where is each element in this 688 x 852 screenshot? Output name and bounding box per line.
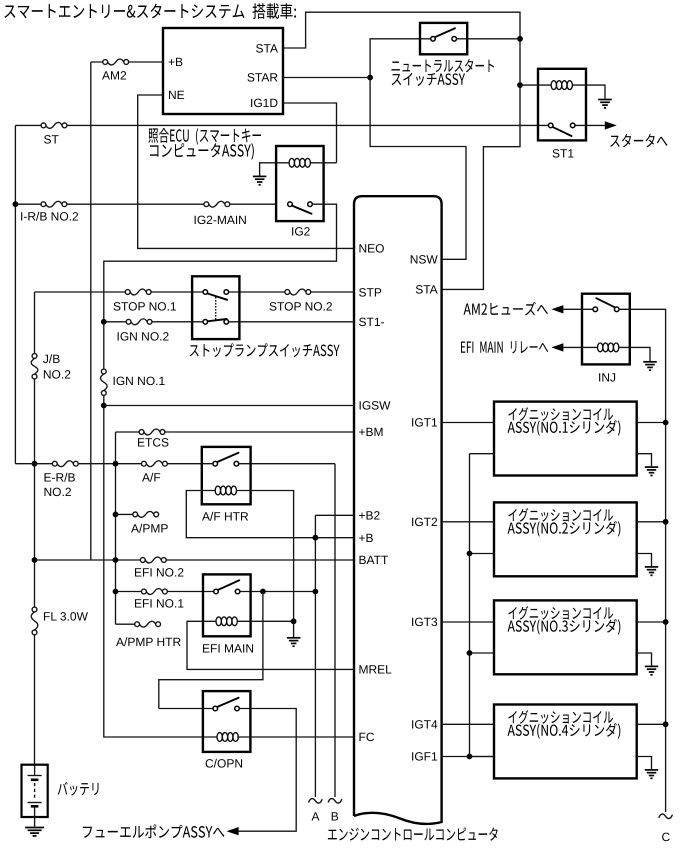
wire STOP NO.1 row <box>35 291 355 293</box>
wire ST1 coil left <box>520 84 551 86</box>
battery plate short bottom <box>31 805 39 808</box>
battery dashed middle <box>34 783 36 800</box>
fuse AM2 <box>103 60 108 65</box>
switch contacts neutral start switch <box>431 37 436 42</box>
node junction rail IGT3 <box>663 619 669 625</box>
relay A/F HTR box <box>202 447 251 504</box>
svg-text:IG2: IG2 <box>291 225 311 239</box>
wire A/F HTR coil right down <box>237 491 294 622</box>
wire coil NO.1 ground stem <box>637 454 652 467</box>
svg-text:A/F HTR: A/F HTR <box>202 510 249 524</box>
svg-text:EFI MAIN: EFI MAIN <box>202 642 254 656</box>
wire to AM2 fuse arrow <box>563 308 593 310</box>
svg-text:FL 3.0W: FL 3.0W <box>43 610 89 624</box>
wire EFI NO.2 BATT row <box>35 559 355 561</box>
node junction IGF coil2 <box>467 551 473 557</box>
breaker IGN NO.1 <box>101 369 106 374</box>
svg-text:ST: ST <box>44 133 60 147</box>
svg-text:EFI NO.1: EFI NO.1 <box>134 597 184 611</box>
node junction IGN NO.2 column <box>101 319 107 325</box>
relay ST1 box <box>538 69 586 141</box>
wire EFI MAIN coil right <box>237 620 293 622</box>
svg-text:NO.2: NO.2 <box>44 485 72 499</box>
switch contacts of relay A/F HTR <box>213 461 218 466</box>
svg-text:C: C <box>662 830 671 844</box>
label engine control computer <box>328 827 498 840</box>
svg-text:NO.2: NO.2 <box>43 368 71 382</box>
wire to EFI MAIN relay arrow <box>563 346 597 348</box>
wire C/OPN switch out to fuel pump <box>239 709 297 832</box>
wire EFI MAIN coil left to MREL <box>187 621 354 669</box>
wire INJ coil right to ground <box>619 347 650 361</box>
ignition coil ASSY NO.1 box <box>494 402 637 476</box>
svg-text:B: B <box>331 810 339 824</box>
wire coil NO.2 ground stem <box>637 554 652 567</box>
wire left rail vertical <box>14 125 16 463</box>
svg-text:IGF1: IGF1 <box>411 750 438 764</box>
ground at battery <box>25 827 44 829</box>
wire C/OPN coil right to FC <box>237 736 354 738</box>
arrow to fuel pump <box>227 827 239 835</box>
smart-key ECU label line2 <box>150 143 254 160</box>
node junction E-R/B <box>32 461 38 467</box>
ignition coil ASSY NO.4 box <box>494 705 637 779</box>
label to AM2 fuse <box>464 302 548 316</box>
wire coil NO.4 ground stem <box>637 757 652 770</box>
wire fuse feed column <box>115 432 117 624</box>
svg-text:ETCS: ETCS <box>137 436 169 450</box>
mechanical link dashed <box>215 297 217 320</box>
node junction EFI NO.2 rail <box>32 557 38 563</box>
svg-text:INJ: INJ <box>598 371 616 385</box>
wire coil NO.1 to C rail <box>637 422 666 424</box>
wire IG2 switch out <box>104 204 337 322</box>
relay INJ box <box>582 294 630 365</box>
svg-text:MREL: MREL <box>359 663 393 677</box>
svg-text:STP: STP <box>359 285 382 299</box>
ignition coil ASSY NO.3 box <box>494 600 637 674</box>
label ignition coil NO.2 line1 <box>508 508 613 522</box>
switch contacts of relay C/OPN <box>213 706 218 711</box>
node junction IGSW <box>101 403 107 409</box>
svg-text:IG2-MAIN: IG2-MAIN <box>194 213 247 227</box>
wire coil NO.3 to C rail <box>637 621 666 623</box>
ground at coil NO.3 <box>645 665 658 667</box>
relay EFI MAIN box <box>203 574 251 636</box>
svg-text:IGT2: IGT2 <box>411 515 438 529</box>
node junction relay grounds <box>291 618 297 624</box>
fuse ETCS <box>139 430 144 435</box>
fuse IGN NO.2 <box>126 319 131 324</box>
switch contacts of relay INJ <box>593 307 598 312</box>
wire ETCS row <box>116 431 355 433</box>
wire IGF1 feedback column <box>469 454 471 757</box>
wire coil NO.3 ground stem <box>637 653 652 666</box>
node junction rail IGT1 <box>663 420 669 426</box>
title text line <box>4 3 296 19</box>
node junction +B tie <box>313 535 319 541</box>
label to-starter <box>610 134 667 147</box>
relay C/OPN box <box>203 691 251 752</box>
wire INJ switch to rail <box>619 309 666 812</box>
svg-text:IGN NO.1: IGN NO.1 <box>113 374 166 388</box>
fuse IG2-MAIN <box>204 202 209 207</box>
svg-text:ST1: ST1 <box>552 147 574 161</box>
wire battery column low <box>34 635 36 765</box>
node junction rail IGT4 <box>663 721 669 727</box>
breaker FL 3.0W <box>32 607 37 612</box>
svg-text:A: A <box>312 810 320 824</box>
coil of relay INJ <box>598 343 603 352</box>
label ignition coil NO.2 line2 <box>508 521 621 537</box>
label battery <box>58 782 99 796</box>
wire ST row <box>15 124 548 126</box>
ground at ST1 coil <box>598 99 612 101</box>
arrow to AM2 fuse <box>551 305 563 313</box>
arrow to EFI MAIN relay <box>551 343 563 351</box>
coil of relay EFI MAIN <box>216 617 221 626</box>
wire battery column top corner <box>34 292 36 354</box>
node junction rail IGT2 <box>663 519 669 525</box>
svg-text:+B: +B <box>168 55 183 69</box>
svg-text:+B2: +B2 <box>359 509 381 523</box>
coil of relay ST1 <box>551 81 556 90</box>
wire A/PMP stub <box>116 513 133 515</box>
battery plate long top <box>28 775 42 777</box>
svg-text:IG1D: IG1D <box>250 96 278 110</box>
svg-text:STOP NO.2: STOP NO.2 <box>269 300 333 314</box>
svg-text:IGN NO.2: IGN NO.2 <box>117 330 170 344</box>
switch contacts stop lamp upper <box>203 290 208 295</box>
wire coil NO.2 igf side <box>470 553 495 555</box>
svg-text:+BM: +BM <box>359 425 384 439</box>
svg-text:FC: FC <box>359 730 375 744</box>
svg-text:NEO: NEO <box>359 241 385 255</box>
label ignition coil NO.3 line1 <box>508 606 613 620</box>
switch contacts stop lamp lower <box>203 320 208 325</box>
node junction STA/ST1-coil <box>517 82 523 88</box>
node junction A/PMP feed <box>113 512 119 518</box>
fuse A/PMP <box>133 512 138 517</box>
svg-text:J/B: J/B <box>43 352 60 366</box>
fuse E-R/B NO.2 <box>52 461 57 466</box>
ground at INJ coil <box>643 361 657 363</box>
svg-text:NE: NE <box>168 88 185 102</box>
breaker J/B NO.2 <box>32 354 37 359</box>
svg-text:IGT3: IGT3 <box>411 615 438 629</box>
wire C/OPN switch left <box>159 708 213 710</box>
label ignition coil NO.3 line2 <box>508 619 621 635</box>
svg-text:NSW: NSW <box>410 253 439 267</box>
wire IGN NO.1 column lower <box>104 395 217 737</box>
ignition coil ASSY NO.2 box <box>494 502 637 576</box>
svg-text:AM2: AM2 <box>102 69 127 83</box>
wire coil NO.4 to C rail <box>637 723 666 725</box>
wire A/PMP HTR row <box>116 623 135 625</box>
stop lamp switch ASSY box <box>192 276 239 339</box>
wire coil NO.3 igf side <box>470 652 495 654</box>
battery plate long bottom <box>28 802 42 804</box>
connector wire A tilde <box>309 799 323 803</box>
wire A/F HTR coil left to +B <box>186 491 354 538</box>
node junction IGF coil4 <box>467 754 473 760</box>
svg-text:IGT4: IGT4 <box>411 718 438 732</box>
node junction IGF coil3 <box>467 650 473 656</box>
label stop lamp switch ASSY <box>190 343 340 357</box>
svg-text:I-R/B NO.2: I-R/B NO.2 <box>20 210 79 224</box>
wire IGT4 to coil box <box>442 723 494 725</box>
ground at IG2 coil <box>253 175 267 177</box>
svg-text:STA: STA <box>415 283 437 297</box>
wire I-R/B row <box>15 203 276 205</box>
svg-text:ST1-: ST1- <box>359 315 385 329</box>
wire battery column mid <box>34 379 36 607</box>
svg-text:STOP NO.1: STOP NO.1 <box>113 300 177 314</box>
svg-text:C/OPN: C/OPN <box>205 757 243 771</box>
wire coil NO.1 igf side <box>470 453 495 455</box>
wire ground stem relays <box>293 621 295 637</box>
fuse EFI NO.1 <box>142 589 147 594</box>
label to EFI MAIN relay <box>461 341 548 353</box>
wire IG1D to IG2 coil <box>283 103 337 163</box>
fuse ST <box>41 123 46 128</box>
battery cell top stem <box>34 765 36 776</box>
svg-text:A/PMP: A/PMP <box>131 522 168 536</box>
fuse STOP NO.1 <box>125 290 130 295</box>
node junction +B rail tie <box>313 589 319 595</box>
fuse A/F <box>142 461 147 466</box>
arrow to starter <box>605 121 617 129</box>
svg-text:E-R/B: E-R/B <box>44 471 76 485</box>
label ignition coil NO.4 line1 <box>508 710 613 724</box>
ground at coil NO.1 <box>645 466 658 468</box>
fuse A/PMP HTR <box>135 622 140 627</box>
node junction EFI NO.2 feed <box>113 557 119 563</box>
wire ST1 coil right to ground <box>572 85 605 98</box>
wire IGT1 to coil box <box>442 422 494 424</box>
wire IGF1 row <box>442 756 494 758</box>
battery plate short top <box>31 778 39 781</box>
switch contacts of relay IG2 <box>288 202 293 207</box>
wire +B2 row <box>315 515 354 797</box>
ground at EFI MAIN coil <box>287 637 301 639</box>
fuse STOP NO.2 <box>285 290 290 295</box>
wire IGT2 to coil box <box>442 521 494 523</box>
relay IG2 box <box>276 146 324 221</box>
node junction EFI MAIN out <box>260 589 266 595</box>
node junction STA/neutral-switch <box>517 36 523 42</box>
wire +B to AM2 fuse <box>128 61 163 63</box>
battery box <box>22 765 48 817</box>
ground at coil NO.4 <box>645 769 658 771</box>
wire neutral switch left to NSW <box>370 39 466 259</box>
neutral start switch ASSY box <box>420 23 467 54</box>
wire IGN NO.2 row <box>104 321 354 323</box>
node junction fuse-feed top <box>113 461 119 467</box>
label ignition coil NO.1 line2 <box>508 420 621 436</box>
wire IG2 coil row <box>260 163 337 176</box>
switch contacts of relay ST1 <box>548 123 553 128</box>
svg-text:STAR: STAR <box>247 71 278 85</box>
wire EFI NO.1 row <box>116 591 316 593</box>
wire AM2 feed vertical <box>91 62 103 560</box>
wire coil NO.2 to C rail <box>637 521 666 523</box>
coil of relay C/OPN <box>217 733 222 742</box>
svg-text:A/F: A/F <box>142 471 161 485</box>
wire ST1 switch out to starter <box>575 124 605 126</box>
label ignition coil NO.1 line1 <box>508 407 613 421</box>
svg-text:IGSW: IGSW <box>359 399 392 413</box>
label to fuel pump ASSY <box>83 824 225 838</box>
svg-text:STA: STA <box>256 41 278 55</box>
label neutral start switch line2 <box>392 73 465 86</box>
wire STAR to junction <box>283 77 370 79</box>
wire NE to NEO <box>138 95 354 248</box>
svg-text:A/PMP HTR: A/PMP HTR <box>116 635 181 649</box>
connector wire C tilde <box>659 814 673 818</box>
wire EFI MAIN out down to C/OPN <box>159 592 263 709</box>
wire E-R/B to A/F HTR row <box>15 464 335 797</box>
wire STA top loop (shougou STA to junction column) <box>283 12 520 289</box>
smart-key ECU U1 box (shougou ECU) <box>163 28 283 114</box>
switch contacts of relay EFI MAIN <box>214 589 219 594</box>
ground at coil NO.2 <box>645 566 658 568</box>
svg-text:BATT: BATT <box>359 553 389 567</box>
connector wire B tilde <box>328 799 342 803</box>
coil of relay IG2 <box>289 158 294 167</box>
battery bottom stem <box>34 806 36 826</box>
fuse I-R/B NO.2 <box>41 202 46 207</box>
coil of relay A/F HTR <box>215 486 220 495</box>
label ignition coil NO.4 line2 <box>508 723 621 739</box>
wire IGSW row <box>104 405 354 407</box>
node junction STAR/neutral-switch column <box>367 75 373 81</box>
svg-text:+B: +B <box>359 531 374 545</box>
engine control computer box <box>354 196 442 824</box>
fuse EFI NO.2 <box>140 558 145 563</box>
node junction I-R/B <box>13 201 19 207</box>
wire neutral switch right <box>457 38 521 40</box>
wire coil NO.4 igf side <box>470 756 495 758</box>
wire IGT3 to coil box <box>442 621 494 623</box>
label neutral start switch line1 <box>391 59 493 72</box>
smart-key ECU label line1 <box>148 128 260 145</box>
svg-text:EFI NO.2: EFI NO.2 <box>134 566 184 580</box>
wire IGN NO.1 column upper <box>103 322 105 369</box>
svg-text:IGT1: IGT1 <box>411 416 438 430</box>
node junction EFI NO.1 feed <box>113 589 119 595</box>
